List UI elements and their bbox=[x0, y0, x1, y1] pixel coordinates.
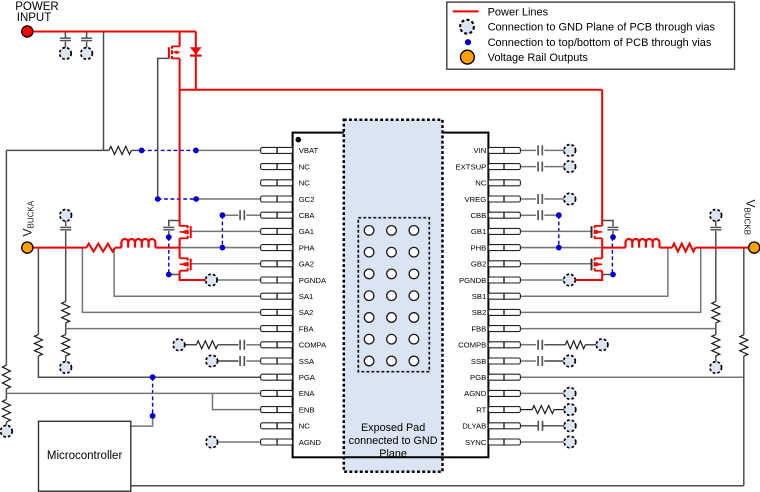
pin label GB2 bbox=[471, 260, 486, 269]
wire EXTSUP cap to via bbox=[544, 166, 570, 168]
wire PGA pullup lower bbox=[38, 356, 260, 377]
capacitor output B bbox=[710, 227, 721, 229]
pin pad right COMPB bbox=[488, 342, 520, 348]
power line phase A to inductor bbox=[155, 247, 179, 249]
via AGND left bbox=[206, 436, 218, 448]
svg-text:NC: NC bbox=[299, 162, 311, 171]
wire feedback B to via bbox=[715, 356, 717, 362]
wire SSA cap to pin bbox=[246, 360, 260, 362]
pin pad right SB1 bbox=[488, 293, 520, 299]
transistor Q1 reverse-battery PMOS bbox=[169, 32, 180, 90]
via output cap A GND bbox=[60, 210, 72, 222]
exposed pad area fill bbox=[344, 120, 443, 472]
pin pad right RT bbox=[488, 407, 520, 413]
layer via dot PGA bottom bbox=[150, 413, 156, 419]
svg-text:CBB: CBB bbox=[470, 211, 486, 220]
svg-text:EXTSUP: EXTSUP bbox=[456, 162, 487, 171]
svg-text:SSA: SSA bbox=[299, 357, 315, 366]
transistor Q5 buck-B low-side bbox=[592, 258, 603, 271]
svg-text:SB2: SB2 bbox=[472, 308, 487, 317]
wire GA2 gate bbox=[191, 263, 261, 265]
wire PGNDB pin to via bbox=[520, 279, 563, 281]
via output cap B GND bbox=[710, 210, 722, 222]
via PGNDB GND bbox=[564, 274, 576, 286]
wire CBB cap to dot bbox=[544, 214, 559, 216]
layer via dot input cap A top bbox=[166, 234, 172, 240]
wire COMPB cap to resistor bbox=[544, 344, 565, 346]
legend text GND vias bbox=[488, 22, 716, 34]
wire PHB phase to pin bbox=[520, 247, 602, 249]
legend rail output sample bbox=[461, 50, 475, 64]
pin pad right PGB bbox=[488, 374, 520, 380]
capacitor CBA bootstrap bbox=[240, 210, 244, 220]
inductor LA bbox=[121, 239, 155, 248]
wire VREG pin to cap bbox=[520, 198, 536, 200]
wire VIN cap to via bbox=[544, 149, 570, 151]
pin pad left NC bbox=[261, 423, 293, 429]
pin pad right SSB bbox=[488, 358, 520, 364]
wire SB1 sense bbox=[520, 248, 668, 297]
svg-text:PGA: PGA bbox=[299, 373, 316, 382]
pin pad right CBB bbox=[488, 212, 520, 218]
wire GA1 gate bbox=[191, 230, 261, 232]
diode D1 bypass bbox=[190, 32, 202, 90]
wire FBB node bbox=[715, 323, 717, 335]
resistor feedback A lower bbox=[62, 335, 70, 356]
wire output cap B to divider bbox=[715, 231, 717, 302]
pin pad left ENA bbox=[261, 390, 293, 396]
pin label ENA bbox=[299, 389, 316, 398]
pin pad left PHA bbox=[261, 245, 293, 251]
layer via dot input cap A bottom bbox=[166, 272, 172, 278]
pin label PHA bbox=[299, 243, 316, 252]
label VBUCKA bbox=[21, 200, 36, 236]
layer via dot GC2 left bbox=[155, 196, 161, 202]
capacitor CBB bootstrap bbox=[538, 210, 542, 220]
pin pad left PGA bbox=[261, 374, 293, 380]
wire SA2 sense bbox=[82, 248, 260, 313]
exposed pad text bbox=[349, 422, 438, 460]
pin pad right GB2 bbox=[488, 261, 520, 267]
wire SSB pin to cap bbox=[520, 360, 536, 362]
pin label COMPA bbox=[299, 341, 327, 350]
capacitor COMPB bbox=[538, 340, 542, 350]
power line phase B node bbox=[601, 238, 603, 258]
pin pad right VIN bbox=[488, 147, 520, 153]
pin pad left CBA bbox=[261, 212, 293, 218]
power line VIN drop A bbox=[179, 90, 181, 226]
pin label GB1 bbox=[471, 227, 486, 236]
svg-text:POWER: POWER bbox=[15, 1, 58, 13]
pin pad left VBAT bbox=[261, 147, 293, 153]
resistor feedback B upper bbox=[712, 302, 720, 323]
via SYNC GND bbox=[564, 436, 576, 448]
pin label VIN bbox=[473, 146, 486, 155]
svg-text:SYNC: SYNC bbox=[465, 438, 487, 447]
pin label SSA bbox=[299, 357, 315, 366]
via VREG GND bbox=[564, 193, 576, 205]
svg-text:FBB: FBB bbox=[471, 324, 486, 333]
svg-text:AGND: AGND bbox=[299, 438, 322, 447]
pin label PHB bbox=[470, 243, 486, 252]
wire CBB pin to cap bbox=[520, 214, 536, 216]
wire RT resistor to via bbox=[554, 409, 564, 411]
via SSA GND bbox=[206, 355, 218, 367]
svg-text:AGND: AGND bbox=[464, 389, 487, 398]
pin label SYNC bbox=[465, 438, 487, 447]
pin pad right VREG bbox=[488, 196, 520, 202]
svg-text:Plane: Plane bbox=[379, 448, 407, 460]
pin label PGB bbox=[470, 373, 486, 382]
wire PGB down to bottom bus bbox=[743, 356, 745, 486]
via AGND right GND bbox=[564, 388, 576, 400]
resistor sense B bbox=[672, 244, 695, 252]
capacitor input bypass B bbox=[608, 227, 619, 229]
via link GC2 (blue dashed) bbox=[158, 198, 197, 200]
pin pad right NC bbox=[488, 180, 520, 186]
wire AGND left bbox=[218, 441, 261, 443]
pin pad left SA2 bbox=[261, 309, 293, 315]
wire battery rail far-left bbox=[5, 150, 7, 365]
wire DLYAB cap to via bbox=[543, 425, 565, 427]
pin 1 marker dot bbox=[296, 137, 302, 143]
capacitor EXTSUP bypass bbox=[538, 162, 542, 172]
microcontroller box bbox=[39, 421, 131, 491]
svg-text:PGNDB: PGNDB bbox=[459, 276, 486, 285]
capacitor input filter 2 bbox=[81, 38, 92, 40]
wire EXTSUP pin to cap bbox=[520, 166, 536, 168]
wire RT pin to resistor bbox=[520, 409, 532, 411]
exposed pad via array dashed box bbox=[358, 218, 429, 372]
pin pad left GA1 bbox=[261, 228, 293, 234]
resistor feedback A upper bbox=[62, 302, 70, 323]
capacitor SSB bbox=[538, 356, 542, 366]
via EXTSUP GND bbox=[564, 161, 576, 173]
pin label VBAT bbox=[299, 146, 319, 155]
svg-text:PGB: PGB bbox=[470, 373, 486, 382]
layer via dot input cap B top bbox=[610, 234, 616, 240]
wire input cap2 lead bottom bbox=[86, 42, 88, 49]
svg-text:ENA: ENA bbox=[299, 389, 316, 398]
resistor COMPA bbox=[196, 341, 217, 349]
resistor enable divider lower bbox=[2, 400, 10, 423]
label VBUCKB bbox=[743, 200, 758, 236]
svg-text:connected to GND: connected to GND bbox=[349, 435, 438, 447]
pin pad right SB2 bbox=[488, 309, 520, 315]
pin label RT bbox=[476, 405, 486, 414]
svg-text:SA1: SA1 bbox=[299, 292, 314, 301]
power line phase A node bbox=[179, 238, 181, 258]
wire COMPA resistor to cap bbox=[218, 344, 239, 346]
microcontroller label bbox=[47, 450, 123, 462]
svg-text:NC: NC bbox=[299, 422, 311, 431]
wire COMPB resistor to via bbox=[585, 344, 596, 346]
pin label SA1 bbox=[299, 292, 314, 301]
svg-text:CBA: CBA bbox=[299, 211, 316, 220]
pin label CBA bbox=[299, 211, 316, 220]
wire input cap A top lead bbox=[169, 221, 180, 227]
voltage rail output VBUCKB bbox=[749, 242, 760, 253]
wire GB1 gate bbox=[520, 230, 591, 232]
svg-text:PGNDA: PGNDA bbox=[299, 276, 327, 285]
svg-text:GC2: GC2 bbox=[299, 195, 315, 204]
power line VIN drop B bbox=[601, 90, 603, 226]
svg-text:Exposed Pad: Exposed Pad bbox=[361, 422, 425, 434]
pin pad right SYNC bbox=[488, 439, 520, 445]
wire CBA cap to pin bbox=[246, 214, 260, 216]
resistor enable divider upper bbox=[2, 365, 10, 389]
svg-text:Power Lines: Power Lines bbox=[488, 6, 549, 18]
via enable divider GND bbox=[1, 425, 13, 437]
wire SA1 sense bbox=[114, 248, 261, 297]
exposed pad dashed border bbox=[344, 120, 443, 472]
pin pad left NC bbox=[261, 164, 293, 170]
pin label FBB bbox=[471, 324, 486, 333]
via feedback B GND bbox=[710, 362, 722, 374]
wire PGB pullup upper bbox=[743, 248, 745, 335]
pin label GA1 bbox=[299, 227, 314, 236]
wire input cap1 lead top bbox=[64, 32, 66, 38]
pin label AGND bbox=[299, 438, 322, 447]
svg-text:Connection to top/bottom of PC: Connection to top/bottom of PCB through … bbox=[488, 37, 712, 49]
wire FBA node bbox=[65, 323, 67, 335]
wire bottom bus to microcontroller bbox=[131, 485, 744, 487]
wire enable divider node bbox=[5, 389, 7, 400]
wire AGND right bbox=[520, 392, 564, 394]
pin label PGA bbox=[299, 373, 316, 382]
wire COMPB pin to cap bbox=[520, 344, 536, 346]
pin label NC bbox=[475, 179, 487, 188]
svg-text:VREG: VREG bbox=[465, 195, 487, 204]
via SSB GND bbox=[564, 355, 576, 367]
power line buck-A source to PGND bbox=[180, 271, 206, 280]
wire enable divider to via bbox=[5, 422, 7, 431]
IC bottom edge over pad bbox=[344, 456, 443, 458]
layer via dot CBB top bbox=[556, 212, 562, 218]
svg-text:PHA: PHA bbox=[299, 243, 316, 252]
legend layer via sample bbox=[465, 39, 471, 45]
pin label GC2 bbox=[299, 195, 315, 204]
via COMPB GND bbox=[596, 339, 608, 351]
pin label VREG bbox=[465, 195, 487, 204]
wire PGA to microcontroller bbox=[131, 416, 153, 426]
svg-text:GA1: GA1 bbox=[299, 227, 314, 236]
svg-text:RT: RT bbox=[476, 405, 486, 414]
wire FBA to pin bbox=[66, 328, 261, 330]
resistor feedback B lower bbox=[712, 335, 720, 356]
power line input bus horizontal bbox=[180, 89, 603, 91]
svg-text:GB1: GB1 bbox=[471, 227, 486, 236]
pin label AGND bbox=[464, 389, 487, 398]
layer via dot VBAT left bbox=[139, 148, 145, 154]
pin label DLYAB bbox=[462, 422, 486, 431]
capacitor input filter 1 bbox=[60, 38, 71, 40]
capacitor COMPA bbox=[240, 340, 244, 350]
via link CBA to phase (blue dashed) bbox=[221, 215, 223, 247]
pin label SB2 bbox=[472, 308, 487, 317]
layer via dot PGA top bbox=[150, 374, 156, 380]
pin pad left FBA bbox=[261, 326, 293, 332]
pin pad left GC2 bbox=[261, 196, 293, 202]
resistor PGB pullup bbox=[740, 335, 748, 356]
via VIN GND bbox=[564, 145, 576, 157]
wire gate line GC2 bbox=[158, 58, 169, 199]
wire COMPA via to resistor bbox=[185, 344, 197, 346]
via input filter 2 GND bbox=[81, 48, 93, 60]
capacitor output A bbox=[60, 227, 71, 229]
resistor VBAT filter bbox=[109, 146, 132, 154]
wire VBAT from battery column bbox=[6, 149, 109, 151]
pin pad right PGNDB bbox=[488, 277, 520, 283]
pin pad left SA1 bbox=[261, 293, 293, 299]
svg-text:Voltage Rail Outputs: Voltage Rail Outputs bbox=[488, 52, 589, 64]
via link PGA (blue dashed) bbox=[152, 377, 154, 416]
wire PHA phase to pin bbox=[180, 247, 261, 249]
wire input cap A bottom lead bbox=[168, 231, 170, 237]
wire output cap A via lead bbox=[65, 221, 67, 226]
wire ENB branch bbox=[213, 393, 261, 409]
transistor Q2 buck-A high-side bbox=[180, 225, 191, 238]
layer via dot CBB bottom bbox=[556, 245, 562, 251]
pin pad right GB1 bbox=[488, 228, 520, 234]
svg-text:INPUT: INPUT bbox=[17, 12, 52, 24]
transistor Q3 buck-A low-side bbox=[180, 258, 191, 271]
transistor Q4 buck-B high-side bbox=[592, 225, 603, 238]
IC U1 body bbox=[293, 133, 489, 458]
via link VBAT (blue dashed) bbox=[142, 149, 196, 151]
wire input cap A to power ground bbox=[169, 274, 180, 276]
capacitor VIN bypass bbox=[538, 145, 542, 155]
wire input cap B to power ground bbox=[602, 274, 613, 276]
wire GC2 to pin bbox=[196, 198, 260, 200]
pin pad left AGND bbox=[261, 439, 293, 445]
wire input cap1 lead bottom bbox=[64, 42, 66, 49]
via PGNDA GND bbox=[206, 274, 218, 286]
pin label ENB bbox=[299, 405, 315, 414]
pin pad right EXTSUP bbox=[488, 164, 520, 170]
power input terminal bbox=[22, 26, 33, 37]
svg-text:Microcontroller: Microcontroller bbox=[47, 450, 123, 462]
wire ENA bbox=[6, 392, 260, 394]
power line buck-B source to PGND bbox=[575, 271, 602, 280]
svg-text:VIN: VIN bbox=[473, 146, 486, 155]
wire VIN pin to cap bbox=[520, 149, 536, 151]
wire inductor LA to sense bbox=[115, 247, 121, 249]
svg-text:COMPB: COMPB bbox=[458, 341, 486, 350]
svg-text:VBAT: VBAT bbox=[299, 146, 319, 155]
power line output B bbox=[695, 247, 754, 249]
pin pad right PHB bbox=[488, 245, 520, 251]
resistor PGA pullup bbox=[34, 335, 42, 356]
exposed pad thermal vias (3x7 grid) bbox=[364, 226, 418, 366]
layer via dot GC2 right bbox=[193, 196, 199, 202]
svg-text:SSB: SSB bbox=[471, 357, 486, 366]
pin pad left COMPA bbox=[261, 342, 293, 348]
wire PGNDA via to pin bbox=[217, 279, 261, 281]
capacitor VREG bypass bbox=[538, 194, 542, 204]
capacitor SSA bbox=[240, 356, 244, 366]
pin pad left SSA bbox=[261, 358, 293, 364]
pin pad right DLYAB bbox=[488, 423, 520, 429]
wire CBA dot to cap bbox=[222, 214, 238, 216]
capacitor input bypass A bbox=[163, 227, 174, 229]
pin label NC bbox=[299, 179, 311, 188]
svg-text:FBA: FBA bbox=[299, 324, 315, 333]
wire power branch to VBAT bbox=[103, 32, 105, 150]
svg-text:NC: NC bbox=[475, 179, 487, 188]
legend text layer vias bbox=[488, 37, 712, 49]
layer via dot CBA bottom bbox=[220, 245, 226, 251]
via DLYAB GND bbox=[564, 420, 576, 432]
resistor sense A bbox=[86, 244, 115, 252]
wire COMPA cap to pin bbox=[246, 344, 260, 346]
svg-text:ENB: ENB bbox=[299, 405, 315, 414]
pin label FBA bbox=[299, 324, 315, 333]
pin label PGNDA bbox=[299, 276, 327, 285]
voltage rail output VBUCKA bbox=[22, 242, 33, 253]
pin pad left PGNDA bbox=[261, 277, 293, 283]
pin pad right AGND bbox=[488, 390, 520, 396]
svg-text:GA2: GA2 bbox=[299, 260, 314, 269]
pin label SA2 bbox=[299, 308, 314, 317]
wire feedback A to via bbox=[65, 356, 67, 362]
via input filter 1 GND bbox=[60, 48, 72, 60]
pin label SB1 bbox=[472, 292, 487, 301]
wire output cap B via lead bbox=[715, 221, 717, 226]
label POWER INPUT bbox=[15, 1, 58, 24]
legend power line sample bbox=[453, 10, 479, 12]
wire SSA via to cap bbox=[218, 360, 239, 362]
inductor LB bbox=[626, 239, 660, 248]
via link CBB to phase (blue dashed) bbox=[558, 215, 560, 247]
pin label GA2 bbox=[299, 260, 314, 269]
via COMPA GND bbox=[173, 339, 185, 351]
wire SYNC bbox=[520, 441, 564, 443]
layer via dot VBAT right bbox=[193, 148, 199, 154]
pin label SSB bbox=[471, 357, 486, 366]
legend text power lines bbox=[488, 6, 549, 18]
wire VBAT to pin bbox=[196, 149, 261, 151]
wire input cap B top lead bbox=[602, 221, 613, 227]
resistor RT bbox=[532, 406, 554, 414]
legend GND via sample bbox=[460, 20, 474, 34]
legend text rail outputs bbox=[488, 52, 589, 64]
wire FBB to pin bbox=[520, 328, 715, 330]
wire output cap A to divider bbox=[65, 231, 67, 302]
wire VBAT resistor to via dot bbox=[131, 149, 141, 151]
pin label COMPB bbox=[458, 341, 486, 350]
svg-text:PHB: PHB bbox=[470, 243, 486, 252]
power line phase B to inductor bbox=[602, 247, 625, 249]
pin pad left GA2 bbox=[261, 261, 293, 267]
via RT GND bbox=[564, 404, 576, 416]
svg-text:COMPA: COMPA bbox=[299, 341, 327, 350]
pin pad left NC bbox=[261, 180, 293, 186]
wire SB2 sense bbox=[520, 248, 700, 313]
pin label PGNDB bbox=[459, 276, 486, 285]
wire DLYAB pin to cap bbox=[520, 425, 538, 427]
layer via dot CBA top bbox=[220, 212, 226, 218]
wire VREG cap to via bbox=[544, 198, 570, 200]
capacitor DLYAB bbox=[538, 421, 542, 431]
pin pad left ENB bbox=[261, 407, 293, 413]
legend box bbox=[447, 2, 735, 69]
wire PGB row bbox=[520, 376, 743, 378]
wire SSB cap to via bbox=[544, 360, 563, 362]
svg-text:DLYAB: DLYAB bbox=[462, 422, 486, 431]
resistor COMPB bbox=[565, 341, 585, 349]
pin label NC bbox=[299, 162, 311, 171]
